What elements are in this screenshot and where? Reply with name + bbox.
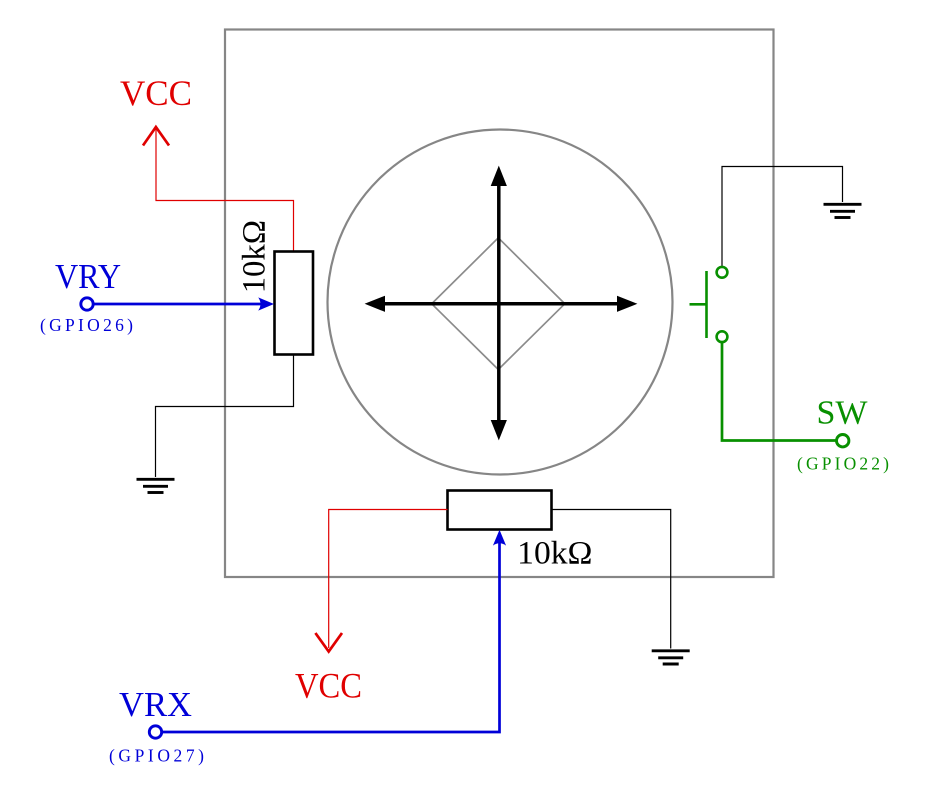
ground top right (824, 204, 862, 217)
direction arrow horizontal (365, 296, 638, 312)
svg-text:10kΩ: 10kΩ (517, 535, 592, 571)
node VRY terminal (81, 298, 93, 310)
wire RV1 top to VCC (red) (156, 129, 294, 251)
wire VRX wiper (blue) (163, 543, 500, 732)
svg-text:VRY: VRY (55, 257, 121, 296)
wire SW1 to SW terminal (green) (722, 343, 836, 441)
joystick gimbal diamond (432, 238, 565, 370)
joystick module outline (225, 30, 774, 578)
arrowhead VRY wiper (258, 297, 274, 310)
wire RV2 left to VCC (red) (329, 510, 448, 649)
potentiometer RV2 (VRX) (448, 491, 552, 530)
wire RV1 bottom to ground (black) (156, 355, 294, 478)
potentiometer RV1 (VRY) (275, 252, 314, 355)
arrowhead VRX wiper (493, 530, 506, 546)
svg-text:VRX: VRX (119, 685, 192, 724)
svg-text:VCC: VCC (120, 73, 192, 113)
svg-text:SW: SW (817, 395, 869, 432)
svg-text:10kΩ: 10kΩ (237, 220, 273, 293)
node SW terminal (837, 435, 849, 447)
node VRX terminal (149, 726, 161, 738)
svg-text:(GPIO26): (GPIO26) (40, 315, 133, 335)
svg-text:(GPIO27): (GPIO27) (109, 746, 204, 766)
svg-text:(GPIO22): (GPIO22) (797, 454, 889, 474)
ground bottom right (652, 651, 690, 664)
pushbutton SW1 (690, 267, 728, 342)
wire RV2 right to ground (black) (552, 510, 671, 649)
ground left (137, 479, 175, 492)
svg-text:VCC: VCC (295, 666, 362, 706)
wire VRY wiper (blue) (94, 303, 262, 306)
VCC supply arrow top (143, 127, 169, 146)
VCC supply arrow bottom (down) (315, 633, 342, 652)
joystick cap circle (328, 130, 673, 475)
direction arrow vertical (491, 166, 507, 441)
wire SW1 top to ground (black) (722, 167, 843, 267)
